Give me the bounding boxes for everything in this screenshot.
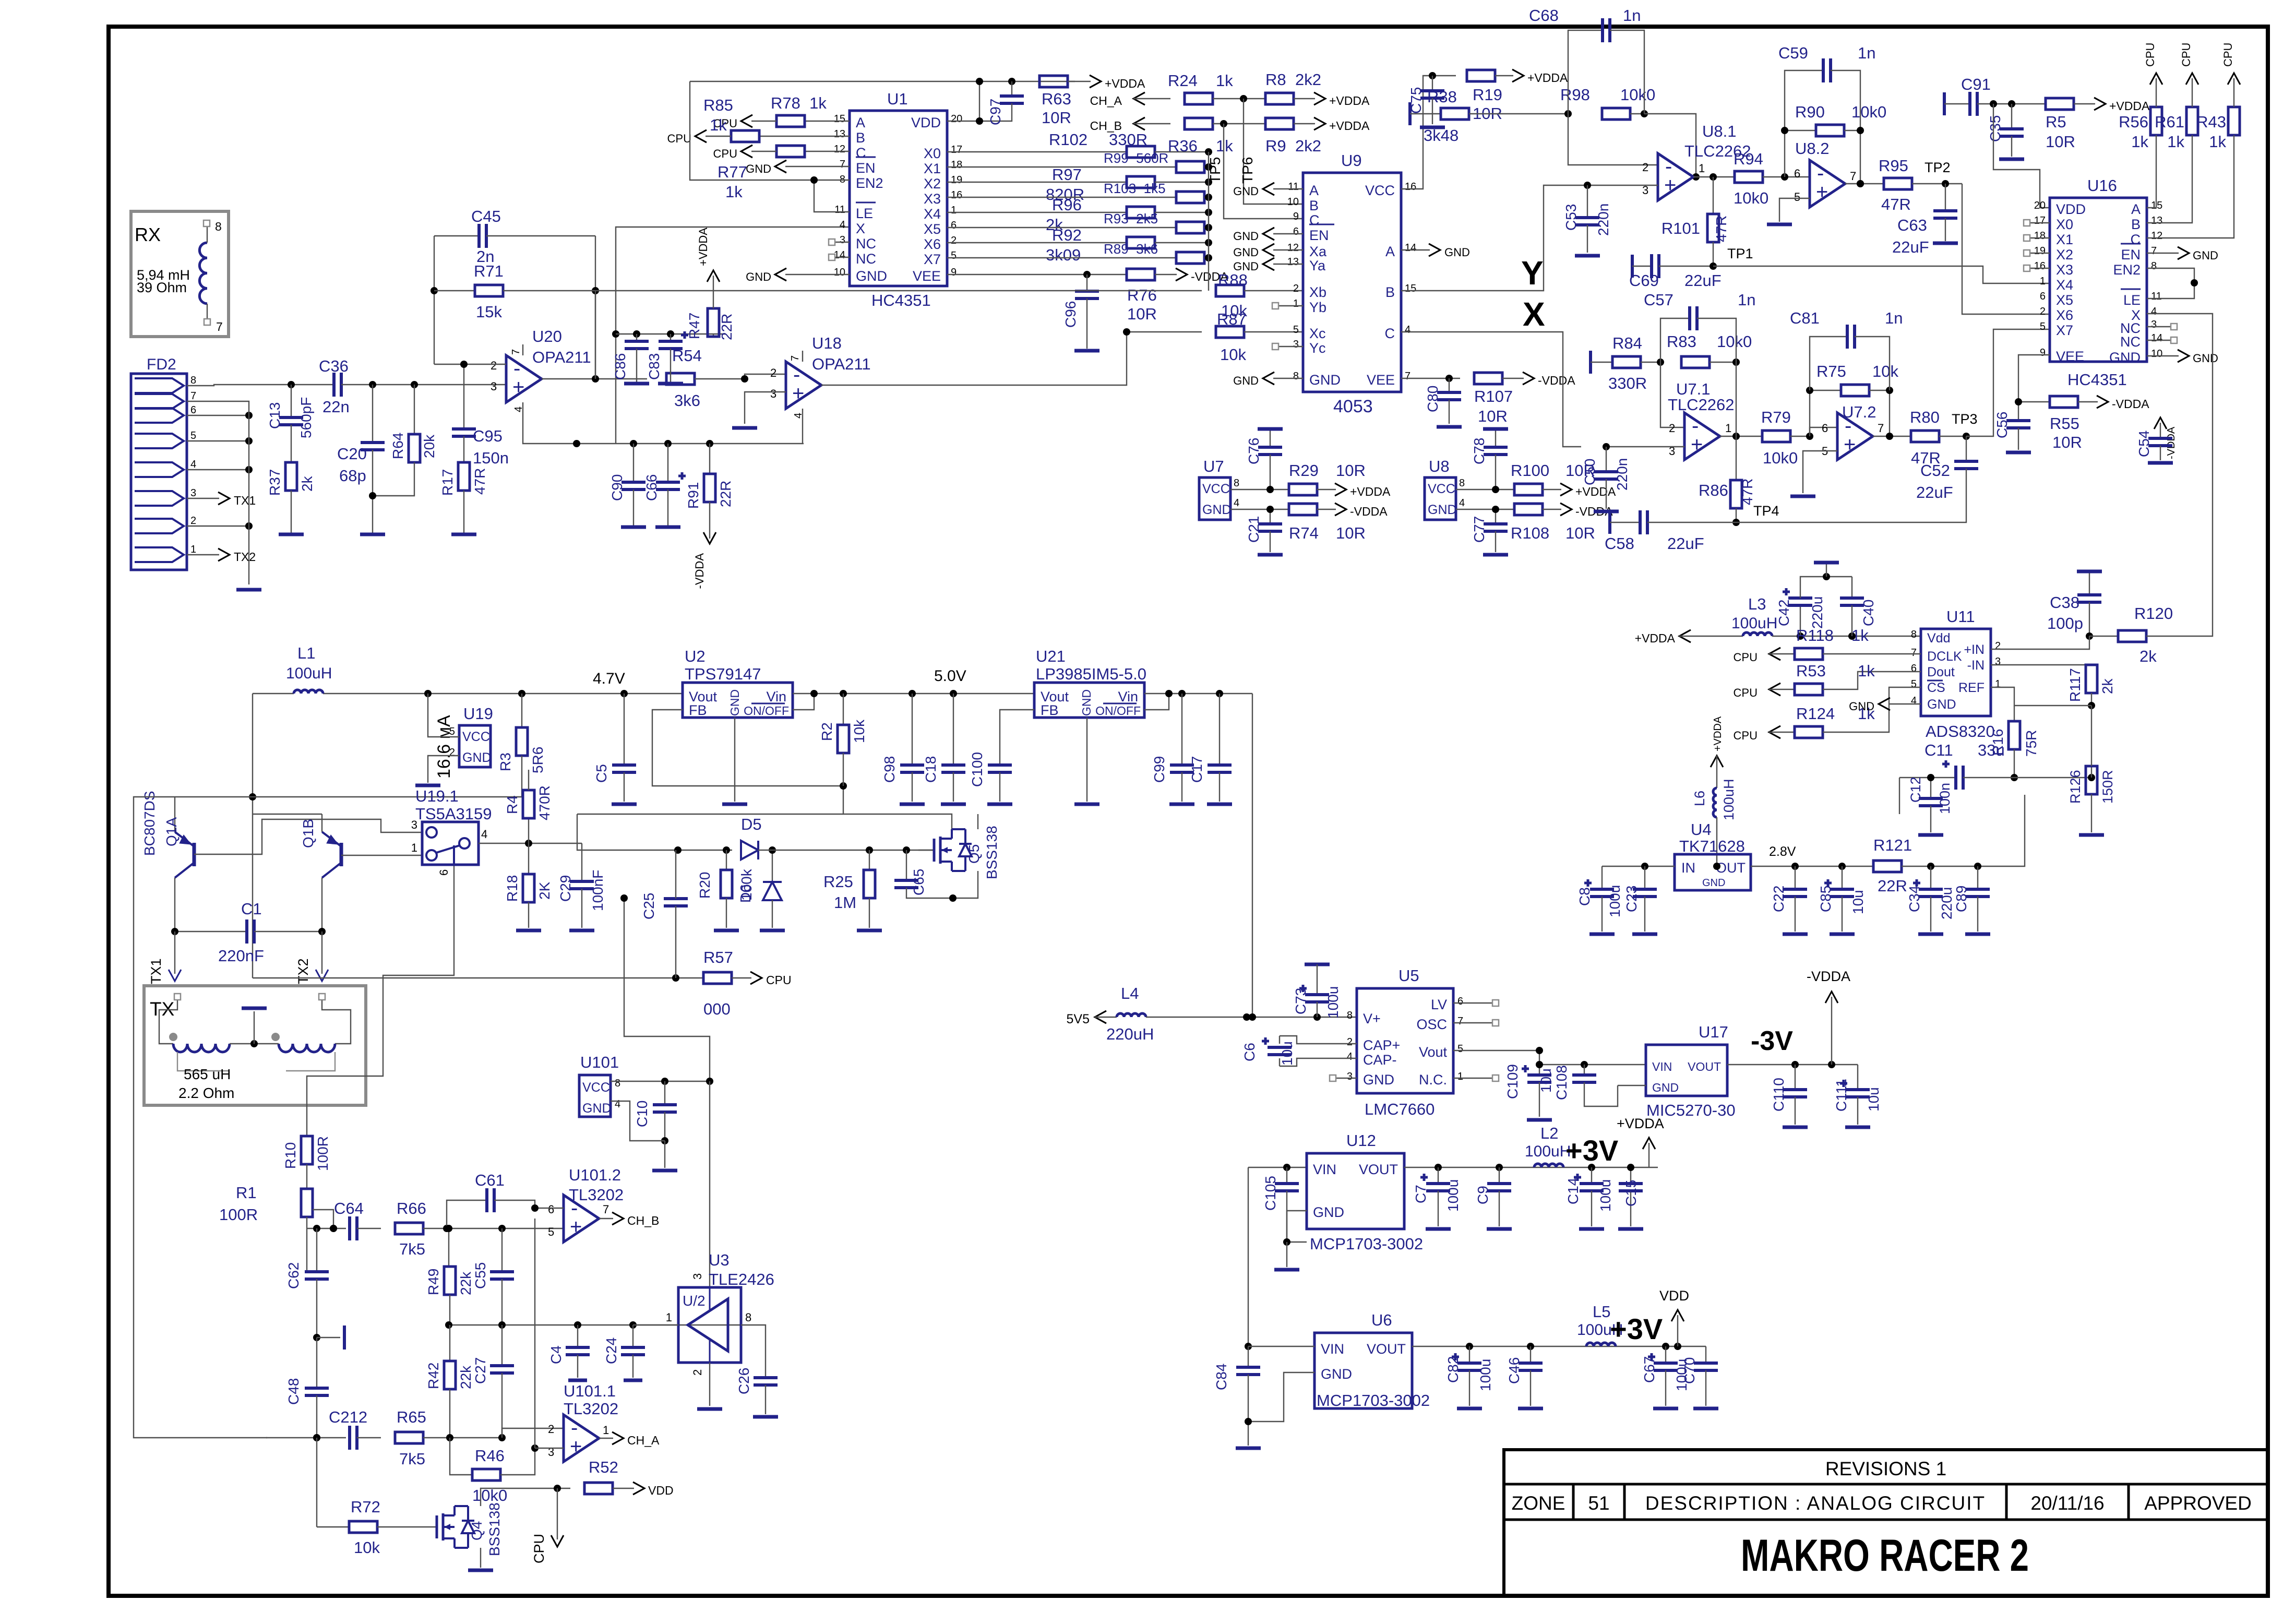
- svg-text:4: 4: [2151, 306, 2157, 317]
- capacitor C63: [1892, 184, 1958, 256]
- IC U11 ADS8320: [1911, 607, 2001, 741]
- resistor R20: [697, 850, 755, 930]
- svg-text:R65: R65: [397, 1408, 426, 1426]
- svg-text:13: 13: [834, 128, 845, 140]
- svg-text:10k: 10k: [354, 1538, 380, 1557]
- svg-text:R95: R95: [1879, 157, 1908, 175]
- wire U9 GND pin y725: [1233, 372, 1303, 387]
- svg-text:U3: U3: [709, 1251, 730, 1269]
- svg-text:7: 7: [1850, 170, 1856, 183]
- svg-text:R118: R118: [1796, 626, 1834, 644]
- wire U101.1 -in: [502, 1428, 564, 1438]
- capacitor C6: [1241, 1036, 1357, 1066]
- svg-text:22R: 22R: [718, 481, 734, 507]
- capacitor C9: [1475, 1167, 1512, 1229]
- capacitor C26: [736, 1368, 778, 1417]
- capacitor C82: [1445, 1346, 1493, 1408]
- svg-text:1: 1: [1995, 678, 2001, 690]
- no-connect U16 NC14: [2147, 337, 2177, 343]
- svg-text:C98: C98: [881, 756, 898, 783]
- svg-text:8: 8: [1459, 477, 1465, 489]
- svg-text:+: +: [1691, 433, 1703, 456]
- wire VEE rail: [947, 271, 1127, 278]
- capacitor C23: [1623, 866, 1657, 934]
- svg-text:C17: C17: [1189, 756, 1205, 783]
- svg-text:C58: C58: [1605, 534, 1634, 553]
- resistor R117: [1991, 652, 2115, 709]
- svg-text:10k0: 10k0: [1620, 86, 1655, 104]
- svg-text:R98: R98: [1560, 86, 1590, 104]
- resistor R84: [1608, 334, 1664, 392]
- capacitor C66: [643, 444, 686, 527]
- wire -VDDA up: [1807, 969, 1850, 1065]
- wire U11 GND: [1849, 698, 1921, 713]
- inductor L1: [286, 644, 332, 694]
- svg-text:4: 4: [190, 459, 196, 470]
- resistor R16: [1990, 706, 2039, 781]
- capacitor C29: [557, 843, 606, 930]
- svg-text:6: 6: [2040, 291, 2046, 302]
- wire U101.2 -in: [531, 1204, 564, 1212]
- svg-text:C18: C18: [923, 756, 939, 783]
- svg-text:X3: X3: [924, 191, 941, 207]
- svg-text:11: 11: [1288, 181, 1299, 193]
- svg-text:R46: R46: [475, 1447, 505, 1465]
- svg-text:TP5: TP5: [1207, 157, 1223, 184]
- resistor R86: [1699, 436, 1755, 526]
- resistor R80: [1910, 408, 1978, 467]
- svg-text:C13: C13: [267, 402, 283, 429]
- svg-text:ON/OFF: ON/OFF: [1095, 704, 1141, 718]
- capacitor C95: [452, 364, 509, 467]
- svg-text:CPU: CPU: [2144, 43, 2157, 67]
- svg-text:Xb: Xb: [1309, 284, 1326, 300]
- capacitor C55: [472, 1228, 514, 1325]
- resistor R25: [823, 850, 882, 930]
- svg-text:220n: 220n: [1595, 204, 1611, 236]
- capacitor C77: [1471, 509, 1508, 555]
- svg-text:ADS8320: ADS8320: [1926, 722, 1995, 741]
- svg-text:MAKRO RACER 2: MAKRO RACER 2: [1741, 1531, 2029, 1581]
- svg-text:10R: 10R: [1127, 305, 1157, 323]
- svg-text:REF: REF: [1958, 680, 1985, 695]
- svg-text:2: 2: [951, 235, 957, 246]
- svg-text:HC4351: HC4351: [2067, 371, 2127, 389]
- svg-text:OUT: OUT: [1716, 860, 1746, 876]
- resistor R93: [947, 211, 1212, 233]
- svg-text:150R: 150R: [2100, 770, 2115, 804]
- wire U16 VEE: [2018, 355, 2050, 402]
- svg-text:B: B: [1309, 198, 1319, 213]
- wire Q4 source: [468, 1548, 493, 1570]
- capacitor C90: [609, 444, 646, 527]
- capacitor C8: [1576, 866, 1623, 934]
- resistor R100: [1511, 461, 1616, 498]
- capacitor C10: [634, 1081, 677, 1171]
- svg-text:6: 6: [437, 869, 450, 876]
- svg-text:C56: C56: [1994, 412, 2010, 438]
- capacitor C64: [334, 1199, 381, 1240]
- svg-text:-VDDA: -VDDA: [1538, 374, 1575, 387]
- svg-text:Vout: Vout: [1419, 1044, 1448, 1060]
- resistor R77: [713, 145, 850, 201]
- svg-text:2: 2: [548, 1423, 554, 1436]
- wire TX1 return loop: [134, 797, 267, 1438]
- capacitor C86: [612, 334, 649, 384]
- svg-text:51: 51: [1588, 1492, 1609, 1514]
- svg-text:EN2: EN2: [2113, 262, 2141, 278]
- svg-text:10u: 10u: [1538, 1068, 1554, 1093]
- svg-text:OPA211: OPA211: [812, 355, 871, 373]
- resistor R47: [686, 228, 735, 340]
- diode D6: [737, 846, 785, 930]
- svg-text:GND: GND: [1363, 1072, 1394, 1088]
- wire +VDDA feed: [1635, 630, 1743, 645]
- capacitor C7: [1413, 1167, 1461, 1229]
- capacitor C212: [329, 1408, 381, 1450]
- wire U9 GND pin y479: [1233, 244, 1303, 259]
- wire R38 input: [1410, 102, 1441, 125]
- capacitor C80: [1425, 378, 1462, 427]
- svg-text:VDD: VDD: [2056, 201, 2086, 217]
- svg-text:2k2: 2k2: [1295, 70, 1321, 89]
- svg-text:10k0: 10k0: [1734, 189, 1768, 207]
- label +3V a: [1565, 1134, 1618, 1167]
- resistor R91: [685, 444, 734, 589]
- svg-text:R52: R52: [589, 1458, 618, 1476]
- svg-text:R56: R56: [2119, 113, 2148, 131]
- svg-text:1: 1: [666, 1311, 672, 1324]
- wire R57 feed: [253, 974, 704, 982]
- svg-text:-VDDA: -VDDA: [693, 553, 706, 589]
- svg-text:+: +: [1844, 433, 1856, 456]
- svg-text:VCC: VCC: [582, 1080, 610, 1095]
- svg-text:39 Ohm: 39 Ohm: [137, 280, 187, 295]
- wire U9 VCC: [1401, 72, 1456, 189]
- svg-text:100uH: 100uH: [1525, 1143, 1571, 1160]
- svg-text:C108: C108: [1553, 1065, 1570, 1100]
- svg-text:5: 5: [1293, 324, 1299, 336]
- wire U1 GND pin7: [746, 160, 850, 175]
- no-connect U1 pin3: [829, 239, 850, 245]
- svg-text:GND: GND: [1444, 246, 1470, 259]
- svg-text:VDD: VDD: [1659, 1288, 1689, 1304]
- svg-text:CPU: CPU: [1734, 686, 1758, 699]
- wire U9 A GND: [1401, 244, 1470, 259]
- svg-text:7: 7: [790, 355, 801, 361]
- svg-text:NC: NC: [2120, 334, 2141, 350]
- capacitor C109: [1504, 1061, 1554, 1120]
- resistor R42: [425, 1325, 474, 1438]
- svg-text:+VDDA: +VDDA: [697, 228, 710, 266]
- capacitor C62: [285, 1262, 329, 1341]
- wire U16 GND pin10: [2147, 350, 2218, 365]
- resistor R3: [497, 694, 546, 797]
- svg-text:C24: C24: [603, 1338, 619, 1364]
- svg-text:C76: C76: [1246, 438, 1262, 464]
- wire net Y: [1401, 185, 1567, 292]
- svg-text:MCP1703-3002: MCP1703-3002: [1310, 1235, 1423, 1253]
- wire U1 EN2 LE: [690, 81, 850, 212]
- svg-text:HC4351: HC4351: [871, 291, 931, 309]
- svg-text:CPU: CPU: [1734, 651, 1758, 664]
- svg-text:8: 8: [1234, 477, 1239, 489]
- svg-text:6: 6: [548, 1203, 554, 1216]
- wire U20 feedback left: [431, 236, 438, 364]
- wire U1 X node: [573, 227, 850, 447]
- svg-text:C42: C42: [1776, 600, 1792, 626]
- svg-text:TLC2262: TLC2262: [1668, 396, 1735, 414]
- wire U19 VCC: [428, 694, 459, 737]
- capacitor C105: [1262, 1167, 1307, 1242]
- svg-text:NC: NC: [856, 251, 876, 267]
- svg-text:CPU: CPU: [766, 973, 792, 987]
- resistor R92: [947, 226, 1212, 264]
- resistor R78: [713, 94, 850, 130]
- wire U2 ONOFF: [793, 690, 818, 710]
- capacitor C42: [1776, 563, 1852, 636]
- svg-text:+3V: +3V: [1610, 1312, 1663, 1345]
- svg-text:GND: GND: [746, 270, 771, 283]
- svg-text:10k: 10k: [1220, 345, 1246, 364]
- svg-text:4: 4: [1347, 1051, 1353, 1062]
- inductor L2: [1525, 1124, 1571, 1167]
- svg-text:R47: R47: [686, 313, 702, 339]
- wire U8.2 +in gnd: [1767, 198, 1810, 224]
- svg-text:R90: R90: [1795, 103, 1825, 121]
- wire mid row: [445, 1321, 741, 1329]
- svg-text:C67: C67: [1641, 1356, 1657, 1383]
- net TX1 at FD2: [187, 492, 256, 507]
- svg-text:R93 2k5: R93 2k5: [1104, 211, 1158, 226]
- svg-text:100u: 100u: [1477, 1359, 1493, 1391]
- wire U101 VCC: [611, 1078, 713, 1085]
- svg-text:22uF: 22uF: [1916, 483, 1953, 501]
- svg-text:10k: 10k: [851, 719, 867, 743]
- wire VDD arrow: [1659, 1288, 1689, 1346]
- svg-text:R38: R38: [1427, 88, 1457, 106]
- wire Q5 drain: [977, 814, 978, 829]
- svg-text:U101: U101: [580, 1053, 619, 1071]
- transistor Q1A: [141, 791, 422, 932]
- wire U12 out: [1404, 1164, 1658, 1171]
- svg-text:1k: 1k: [725, 183, 743, 201]
- svg-text:CS: CS: [1927, 680, 1945, 695]
- no-connect U9 Yb: [1272, 303, 1303, 309]
- wire R117 bottom: [2091, 706, 2092, 766]
- wire U12 vin: [1245, 1164, 1307, 1350]
- svg-text:1k: 1k: [1858, 662, 1875, 680]
- capacitor C83: [646, 331, 688, 384]
- wire U7.1 out: [1720, 433, 1762, 440]
- no-connect U5 NC: [1453, 1075, 1499, 1081]
- wire VCC column down: [709, 1081, 710, 1287]
- svg-text:R8: R8: [1265, 70, 1286, 89]
- svg-text:GND: GND: [1233, 374, 1259, 387]
- svg-text:C: C: [856, 145, 866, 161]
- capacitor C48: [285, 1338, 329, 1441]
- svg-text:CH_A: CH_A: [1090, 94, 1122, 108]
- svg-text:C77: C77: [1471, 516, 1487, 543]
- svg-text:U8: U8: [1429, 457, 1450, 475]
- svg-text:X4: X4: [2056, 277, 2073, 293]
- wire U7.2 out: [1873, 433, 1911, 440]
- wire U101.1 +in: [535, 1219, 564, 1448]
- IC U5 LMC7660: [1347, 966, 1463, 1118]
- svg-text:C35: C35: [1987, 115, 2003, 142]
- svg-text:20k: 20k: [421, 434, 437, 458]
- svg-text:R86: R86: [1699, 481, 1728, 499]
- svg-text:D5: D5: [741, 815, 762, 833]
- svg-text:C29: C29: [557, 875, 573, 902]
- connector FD2: [131, 356, 196, 570]
- svg-text:V+: V+: [1363, 1011, 1381, 1026]
- svg-text:X0: X0: [924, 146, 941, 161]
- wire U16 EN2-LE: [2147, 268, 2198, 298]
- svg-text:47R: 47R: [472, 468, 488, 495]
- svg-text:TX: TX: [150, 998, 174, 1020]
- svg-text:100uH: 100uH: [286, 665, 332, 682]
- svg-text:U7.2: U7.2: [1842, 403, 1876, 421]
- svg-text:100u: 100u: [1597, 1179, 1613, 1212]
- resistor R55: [2050, 396, 2149, 451]
- transistor Q5: [918, 826, 1000, 879]
- svg-text:1n: 1n: [1738, 291, 1755, 309]
- svg-text:10R: 10R: [2046, 133, 2075, 151]
- no-connect U5 OSC: [1453, 1020, 1499, 1026]
- svg-text:TP6: TP6: [1239, 157, 1256, 184]
- svg-text:U101.1: U101.1: [564, 1382, 616, 1400]
- svg-text:C110: C110: [1771, 1078, 1787, 1112]
- svg-text:1k: 1k: [2209, 133, 2226, 151]
- svg-text:CPU: CPU: [2180, 43, 2193, 67]
- svg-text:U1: U1: [887, 90, 908, 108]
- svg-text:20/11/16: 20/11/16: [2030, 1492, 2104, 1514]
- svg-text:5: 5: [449, 726, 455, 737]
- svg-text:12: 12: [1287, 242, 1299, 254]
- resistor R43: [2147, 43, 2240, 238]
- svg-text:U11: U11: [1946, 607, 1975, 626]
- wire U21 Vin rail: [1144, 690, 1252, 697]
- resistor R37: [267, 425, 315, 534]
- wire U21 ONOFF: [1144, 690, 1173, 710]
- svg-text:GND: GND: [1202, 503, 1232, 517]
- wire U20 -in: [434, 361, 506, 368]
- IC U12 MCP1703-3002: [1307, 1131, 1423, 1253]
- IC U1 HC4351: [834, 90, 963, 309]
- svg-text:Q1B: Q1B: [300, 819, 316, 848]
- svg-text:100u: 100u: [1325, 986, 1341, 1019]
- resistor R74: [1289, 503, 1388, 542]
- svg-text:CAP+: CAP+: [1363, 1037, 1400, 1053]
- svg-text:C53: C53: [1563, 204, 1579, 231]
- resistor R103: [947, 181, 1212, 203]
- svg-text:R18: R18: [504, 875, 520, 902]
- svg-text:NC: NC: [856, 236, 876, 252]
- resistor R29: [1289, 461, 1391, 498]
- svg-text:BSS138: BSS138: [984, 826, 1000, 879]
- svg-text:R97: R97: [1052, 165, 1082, 184]
- resistor R83: [1667, 332, 1752, 368]
- resistor R75: [1806, 362, 1898, 436]
- svg-text:VIN: VIN: [1321, 1341, 1344, 1357]
- svg-text:11: 11: [834, 204, 845, 216]
- svg-text:15: 15: [834, 113, 845, 125]
- svg-text:3: 3: [190, 487, 196, 499]
- svg-text:1: 1: [1699, 162, 1705, 175]
- capacitor C22: [1771, 866, 1808, 934]
- svg-text:7: 7: [510, 349, 522, 355]
- IC U4 TK71628: [1675, 820, 1751, 890]
- svg-text:A: A: [2131, 201, 2141, 217]
- svg-text:+VDDA: +VDDA: [1527, 71, 1568, 85]
- op-amp U20: [491, 327, 591, 412]
- svg-text:R126: R126: [2067, 770, 2083, 804]
- svg-text:000: 000: [703, 1000, 731, 1018]
- capacitor C20: [337, 385, 385, 534]
- svg-text:R24: R24: [1168, 71, 1198, 90]
- svg-text:5: 5: [951, 250, 957, 261]
- svg-text:MCP1703-3002: MCP1703-3002: [1317, 1391, 1430, 1410]
- svg-text:3k48: 3k48: [1424, 126, 1459, 145]
- resistor R56: [2119, 43, 2162, 208]
- wire U17 out -3V: [1727, 1026, 1858, 1068]
- svg-text:X5: X5: [924, 221, 941, 237]
- svg-text:22uF: 22uF: [1667, 534, 1704, 553]
- wire U3 pin2 gnd: [697, 1363, 722, 1409]
- svg-text:6: 6: [951, 220, 957, 231]
- svg-text:+VDDA: +VDDA: [1635, 631, 1676, 645]
- svg-text:X: X: [856, 221, 865, 236]
- svg-text:X1: X1: [924, 161, 941, 176]
- svg-text:1n: 1n: [1858, 44, 1875, 62]
- svg-text:TL3202: TL3202: [569, 1186, 624, 1204]
- capacitor C14: [1565, 1167, 1613, 1229]
- resistor R102: [947, 130, 1212, 158]
- capacitor C81: [1790, 309, 1903, 390]
- svg-text:CPU: CPU: [713, 147, 737, 160]
- wire TP3 to U16: [1966, 329, 2050, 436]
- svg-text:22uF: 22uF: [1684, 271, 1722, 290]
- capacitor C97: [976, 81, 1024, 125]
- svg-text:Q4: Q4: [469, 1521, 485, 1541]
- svg-text:VDD: VDD: [911, 115, 941, 130]
- svg-text:10: 10: [1287, 196, 1299, 208]
- capacitor C24: [603, 1325, 645, 1380]
- svg-text:1k: 1k: [1216, 137, 1233, 155]
- wire TP4: [1736, 488, 1966, 522]
- svg-text:D6: D6: [737, 884, 754, 903]
- svg-text:C20: C20: [337, 445, 367, 463]
- wire +VDDA arrow: [1617, 1116, 1664, 1167]
- svg-text:C26: C26: [736, 1368, 752, 1394]
- svg-text:R89 3k6: R89 3k6: [1104, 241, 1158, 257]
- svg-text:L1: L1: [297, 644, 315, 662]
- resistor R96: [947, 196, 1212, 234]
- svg-text:U101.2: U101.2: [569, 1166, 621, 1184]
- svg-text:R57: R57: [703, 948, 733, 966]
- svg-text:LE: LE: [856, 206, 873, 221]
- svg-text:LV: LV: [1431, 997, 1447, 1012]
- wire U5 out: [1453, 1047, 1646, 1068]
- svg-text:+VDDA: +VDDA: [1617, 1116, 1664, 1131]
- capacitor C110: [1771, 1065, 1808, 1127]
- svg-text:100p: 100p: [2047, 614, 2083, 632]
- capacitor C15: [1618, 1164, 1643, 1229]
- svg-text:3: 3: [691, 1273, 704, 1280]
- svg-text:10R: 10R: [1336, 461, 1366, 480]
- wire C25-R57 riser: [675, 850, 676, 978]
